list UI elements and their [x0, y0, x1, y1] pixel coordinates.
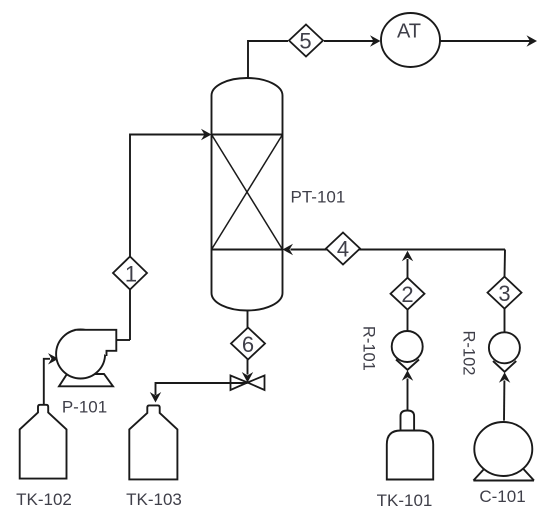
- arrowhead right edge: [527, 35, 538, 46]
- svg-text:C-101: C-101: [479, 487, 525, 506]
- svg-text:TK-102: TK-102: [16, 490, 72, 509]
- arrowhead junction up: [402, 251, 413, 261]
- arrowhead into R-101: [402, 370, 413, 381]
- svg-text:P-101: P-101: [62, 398, 107, 417]
- arrowhead into AT: [370, 35, 381, 46]
- svg-text:5: 5: [299, 29, 311, 54]
- compressor C-101 base: [473, 462, 534, 481]
- arrowhead into R-102: [499, 372, 510, 383]
- tank TK-102: [20, 405, 67, 479]
- arrowhead feed into column: [201, 129, 212, 140]
- arrowhead into pump: [48, 353, 59, 364]
- stream diamond 2: [391, 278, 425, 310]
- wire R-101 branch to main line: [407, 259, 409, 279]
- wire C-101 to R-102: [503, 381, 505, 421]
- tank TK-101: [401, 411, 415, 430]
- wire column-top to diamond5: [248, 41, 288, 78]
- instrument AT: [381, 13, 440, 67]
- wire diamond3 to R-102: [504, 308, 506, 332]
- wire pump to column feed: [130, 135, 205, 341]
- column bed top line: [212, 134, 283, 136]
- svg-text:6: 6: [242, 332, 254, 357]
- arrowhead into column right: [283, 244, 294, 255]
- svg-text:R-101: R-101: [359, 326, 377, 371]
- column bed bottom line: [212, 249, 283, 251]
- wire valve to TK-103: [156, 383, 248, 395]
- svg-text:1: 1: [125, 262, 137, 287]
- pump P-101 casing: [56, 330, 105, 379]
- svg-text:4: 4: [337, 237, 349, 262]
- rotameter R-101: [392, 331, 423, 362]
- pump P-101 discharge block: [75, 330, 117, 356]
- stream diamond 4: [326, 233, 360, 265]
- wire TK-102 to pump suction: [44, 359, 50, 405]
- column bed diagonal 2: [212, 135, 283, 250]
- stream diamond 5: [289, 25, 323, 57]
- wire column bottom to valve: [247, 311, 249, 375]
- rotameter R-102: [489, 332, 520, 363]
- column PT-101 shell: [212, 78, 283, 311]
- svg-text:TK-101: TK-101: [377, 491, 433, 510]
- svg-text:AT: AT: [397, 21, 421, 43]
- stream diamond 3: [488, 277, 522, 309]
- stream diamond 1: [113, 257, 147, 290]
- arrowhead into valve: [242, 372, 253, 383]
- svg-text:R-102: R-102: [460, 331, 478, 376]
- wire main feed to column bottom-right: [291, 249, 506, 251]
- arrowhead into TK-103: [150, 392, 161, 403]
- valve body: [231, 376, 248, 391]
- svg-text:2: 2: [401, 282, 413, 307]
- wire AT to right edge: [440, 40, 530, 42]
- wire diamond2 to R-101: [407, 310, 409, 332]
- wire diamond3 chain corner: [504, 250, 507, 278]
- wire diamond5 to AT: [324, 40, 374, 42]
- tank TK-103: [129, 405, 177, 479]
- svg-text:3: 3: [498, 281, 510, 306]
- wire pump discharge: [116, 339, 130, 341]
- stream diamond 6: [231, 328, 265, 360]
- column bed diagonal 1: [212, 135, 283, 250]
- svg-text:PT-101: PT-101: [291, 188, 346, 207]
- pump P-101 base: [59, 374, 113, 386]
- svg-text:TK-103: TK-103: [126, 490, 182, 509]
- compressor C-101 body: [474, 422, 532, 476]
- wire TK-101 to R-101: [407, 379, 409, 411]
